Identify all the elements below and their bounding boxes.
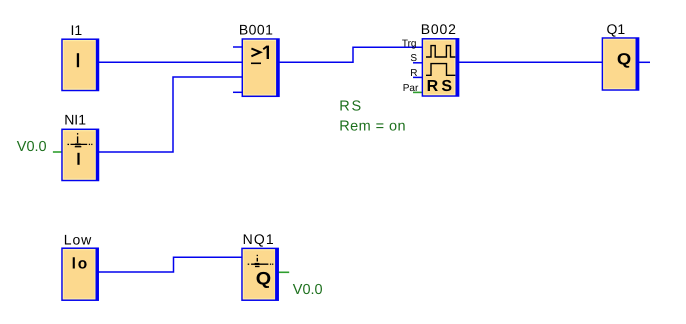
wire B001 output to B002 Trg [279,47,422,62]
svg-text:NQ1: NQ1 [243,231,275,247]
wire I1 output to B001 input 2 [99,61,243,63]
svg-text:Q: Q [617,51,631,69]
wire Q1 output stub [639,61,650,63]
input block I1 [62,39,99,91]
wire B001 input 4 stub [233,91,242,93]
network output block NQ1 [242,248,278,300]
wire B002 S input stub [413,62,422,64]
svg-text:RS: RS [339,98,363,114]
wire B002 Par input stub (green) [413,91,422,93]
svg-text:I1: I1 [71,22,83,38]
svg-text:Q: Q [256,268,271,288]
wire Low output to NQ1 input [98,257,242,272]
wire NI1 output to B001 input 3 [99,77,243,152]
OR gate B001 [242,39,279,97]
svg-text:Par: Par [403,83,419,94]
output block Q1 [602,38,638,90]
svg-text:S: S [410,53,417,64]
wire NQ1 network reference stub (green) [279,271,290,273]
wire B001 input 1 stub [233,46,242,48]
svg-text:B002: B002 [421,21,457,37]
RS latch block B002 [422,39,458,97]
wire B002 R input stub [413,76,422,78]
svg-text:Trg: Trg [402,38,417,49]
svg-text:Low: Low [64,232,92,248]
network input block NI1 [62,129,99,181]
wire B002 output to Q1 [459,61,603,63]
svg-text:B001: B001 [239,22,274,38]
wire NI1 network reference stub (green) [53,151,62,153]
constant block Low [62,248,98,300]
svg-text:Q1: Q1 [607,21,626,37]
svg-text:NI1: NI1 [64,112,86,128]
svg-text:V0.0: V0.0 [293,282,323,298]
svg-text:Rem = on: Rem = on [339,118,406,134]
svg-text:RS: RS [427,78,456,95]
svg-text:V0.0: V0.0 [17,139,47,155]
svg-text:lo: lo [72,256,89,273]
svg-text:R: R [410,68,417,79]
